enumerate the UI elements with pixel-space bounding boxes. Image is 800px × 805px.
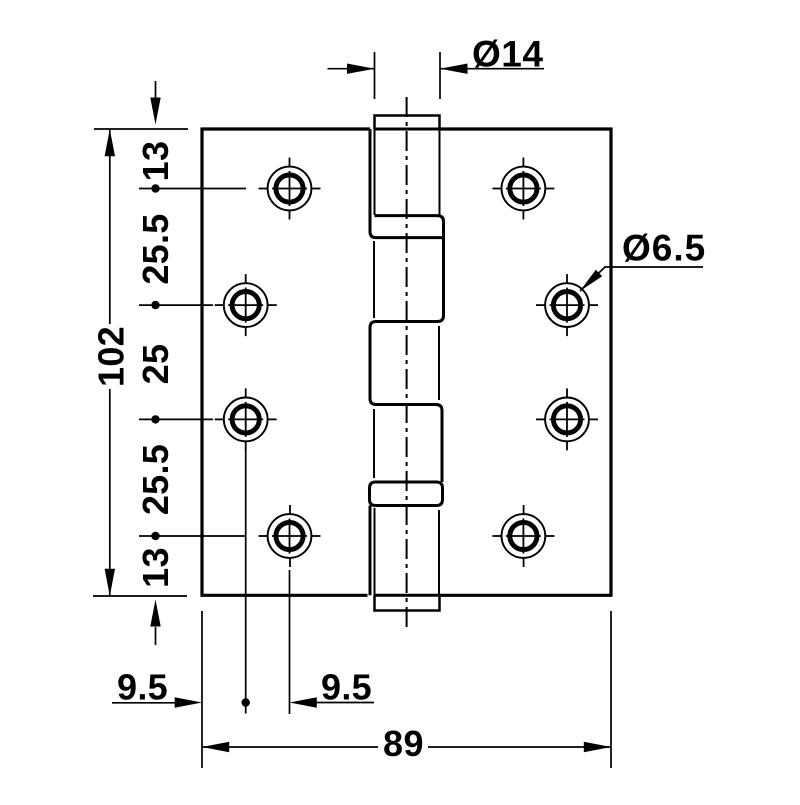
dim 102 bottom arrow — [105, 569, 115, 596]
barrel bottom cap top edge — [375, 594, 440, 597]
dim 9.5 right arrow — [290, 697, 317, 707]
dim 9.5 left arrow — [175, 697, 202, 707]
barrel center line — [406, 97, 408, 630]
hole r2 right inner ring — [553, 292, 580, 319]
svg-text:Ø6.5: Ø6.5 — [622, 227, 706, 268]
svg-text:9.5: 9.5 — [117, 667, 168, 708]
knuckle E right cylinder line — [438, 510, 440, 596]
dim Ø14 right extension line — [439, 52, 441, 99]
dim 89 dimension line left part — [202, 746, 378, 748]
hole r1 right outer — [502, 167, 546, 211]
hole r3 left outer — [224, 398, 268, 442]
hole r3 left inner ring — [232, 406, 259, 433]
barrel top cap bottom edge — [375, 128, 440, 131]
hole 4 crosshair — [536, 304, 546, 306]
hole r4 left inner ring — [276, 522, 303, 549]
dim 89 left arrow — [202, 742, 229, 752]
barrel bottom cap — [375, 596, 440, 611]
dim 102 dimension line lower part — [109, 389, 111, 596]
hole r2 right outer — [545, 283, 589, 327]
bearing ring B — [370, 482, 443, 506]
top tick line at hinge top level — [94, 128, 188, 130]
screw holes — [224, 167, 589, 558]
hole r3 right inner ring — [553, 406, 580, 433]
knuckle E left curl outer line — [369, 506, 372, 596]
hole 6 crosshair — [536, 418, 546, 420]
chain dot row4 — [151, 532, 159, 540]
chain bottom arrow shaft — [155, 627, 157, 645]
hole column B extension line — [245, 448, 247, 714]
chain dot row1 — [151, 184, 159, 192]
hole r3 right outer — [545, 398, 589, 442]
hole r4 left outer — [268, 514, 312, 558]
knuckle A left cylinder line — [374, 129, 376, 215]
knuckle B right curl / joint to knuckle C left curl — [370, 222, 444, 482]
knuckle B left line — [373, 241, 375, 318]
chain top arrow — [150, 98, 160, 125]
dim 102 top arrow — [105, 129, 115, 156]
hole 3 crosshair — [215, 304, 225, 306]
hole r1 right inner ring — [510, 175, 537, 202]
knuckle A right cylinder line — [439, 129, 441, 215]
chain dot row2 — [151, 301, 159, 309]
chain top arrow shaft — [155, 81, 157, 98]
barrel top cap — [375, 116, 440, 130]
dim 9.5 right dimension line — [316, 702, 374, 704]
hole 2 crosshair — [492, 188, 502, 190]
svg-text:13: 13 — [135, 141, 176, 182]
hole 5 crosshair — [215, 418, 225, 420]
knuckle D left line — [373, 409, 375, 478]
svg-text:25.5: 25.5 — [135, 213, 176, 284]
chain extension line row4 — [139, 535, 246, 537]
dim Ø14 left extension line — [374, 52, 376, 99]
hole r4 right inner ring — [510, 522, 537, 549]
knuckle C right line — [438, 326, 440, 400]
leader line of Ø6.5 — [580, 267, 703, 291]
hole r1 left inner ring — [276, 175, 303, 202]
dim Ø14 left dimension line — [328, 68, 375, 70]
dim 9.5 left dimension line — [112, 702, 176, 704]
leader Ø6.5 arrow — [580, 270, 602, 291]
chain extension line row3 — [139, 418, 213, 420]
chain extension line row1 — [139, 188, 246, 190]
svg-text:102: 102 — [91, 326, 132, 387]
hole r2 left outer — [224, 283, 268, 327]
dim Ø14 right arrow — [440, 64, 468, 74]
knuckle E left cylinder line — [374, 508, 376, 596]
chain bottom arrow — [150, 600, 160, 627]
dim 9.5 dot — [242, 698, 250, 706]
right edge bottom extension line — [610, 611, 612, 768]
chain extension line row2 — [139, 304, 213, 306]
hole 8 crosshair — [492, 535, 502, 537]
hole r2 left inner ring — [232, 292, 259, 319]
hole r1 left outer — [268, 167, 312, 211]
chain dot row3 — [151, 415, 159, 423]
hole 1 crosshair — [259, 188, 269, 190]
svg-text:13: 13 — [135, 547, 176, 588]
dim 102 dimension line upper part — [109, 129, 111, 324]
dim Ø14 right dimension line — [440, 68, 544, 70]
hole column A extension line — [289, 570, 291, 714]
dim 89 right arrow — [584, 742, 611, 752]
hole 7 crosshair — [259, 535, 269, 537]
bearing ring A — [375, 216, 444, 222]
bottom tick line at hinge bottom level — [93, 595, 187, 597]
svg-text:89: 89 — [383, 723, 424, 764]
svg-text:25.5: 25.5 — [135, 444, 176, 515]
dim Ø14 left arrow — [347, 64, 375, 74]
dim 89 dimension line right part — [428, 746, 611, 748]
hinge right leaf outline — [440, 129, 612, 595]
knuckle A left curl outer line — [370, 129, 444, 238]
left edge bottom extension line — [201, 611, 203, 768]
svg-text:9.5: 9.5 — [321, 667, 372, 708]
svg-text:Ø14: Ø14 — [472, 34, 543, 75]
hole r4 right outer — [502, 514, 546, 558]
hinge left leaf outline — [202, 129, 370, 595]
svg-text:25: 25 — [135, 344, 176, 385]
